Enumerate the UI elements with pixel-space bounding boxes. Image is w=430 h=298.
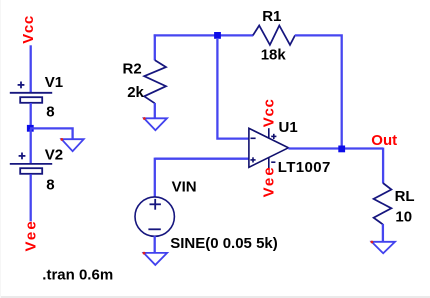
svg-text:Vee: Vee	[22, 219, 39, 251]
wire R2 top lead	[154, 34, 156, 60]
wire V1 to junction	[30, 103, 32, 131]
wire VIN to +input	[154, 158, 156, 198]
wire Out down to RL	[382, 148, 384, 184]
svg-text:Vcc: Vcc	[261, 98, 278, 127]
svg-text:18k: 18k	[261, 46, 287, 63]
battery V1	[10, 82, 52, 103]
junction node Out	[338, 146, 345, 153]
svg-text:RL: RL	[395, 188, 415, 205]
wire V2 to Vee	[30, 174, 32, 221]
ground (RL)	[372, 242, 395, 254]
battery V2	[10, 153, 52, 174]
ground (R2)	[144, 118, 167, 130]
ground (V1/V2 midpoint)	[62, 139, 84, 151]
wire VIN bottom lead	[154, 236, 156, 253]
resistor R2	[144, 60, 166, 103]
wire Vcc to V1	[30, 45, 32, 92]
svg-text:Vcc: Vcc	[20, 15, 37, 44]
svg-text:V2: V2	[45, 146, 63, 163]
svg-text:8: 8	[46, 104, 54, 121]
junction node inverting input top	[214, 32, 221, 39]
svg-text:VIN: VIN	[172, 178, 197, 195]
svg-text:2k: 2k	[127, 84, 144, 101]
svg-text:SINE(0 0.05 5k): SINE(0 0.05 5k)	[170, 235, 278, 252]
resistor RL	[374, 183, 392, 224]
svg-text:10: 10	[395, 208, 412, 225]
op-amp U1	[249, 128, 289, 169]
svg-text:V1: V1	[45, 74, 63, 91]
svg-text:U1: U1	[279, 119, 298, 136]
wire R1 to output node	[295, 35, 342, 148]
wire RL bottom lead	[382, 224, 384, 242]
wire op-amp output	[288, 147, 383, 149]
svg-text:Vee: Vee	[261, 165, 278, 197]
wire top node horizontal	[154, 34, 254, 36]
resistor R1	[253, 26, 295, 45]
wire junction to V2	[30, 129, 32, 164]
wire junction to ground	[30, 128, 73, 139]
window bottom edge	[0, 296, 430, 298]
svg-text:.tran 0.6m: .tran 0.6m	[42, 267, 113, 284]
wire +input horizontal	[155, 158, 249, 160]
svg-text:R1: R1	[262, 8, 281, 25]
svg-text:Out: Out	[371, 132, 397, 149]
ground (VIN)	[144, 253, 167, 265]
svg-text:LT1007: LT1007	[278, 159, 331, 176]
svg-text:R2: R2	[123, 60, 142, 77]
wire R2 bottom lead	[154, 103, 156, 118]
svg-text:8: 8	[46, 176, 54, 193]
junction node V1/V2	[27, 125, 34, 132]
wire junction down to op-amp inverting input	[217, 38, 249, 139]
voltage source VIN	[135, 197, 174, 236]
